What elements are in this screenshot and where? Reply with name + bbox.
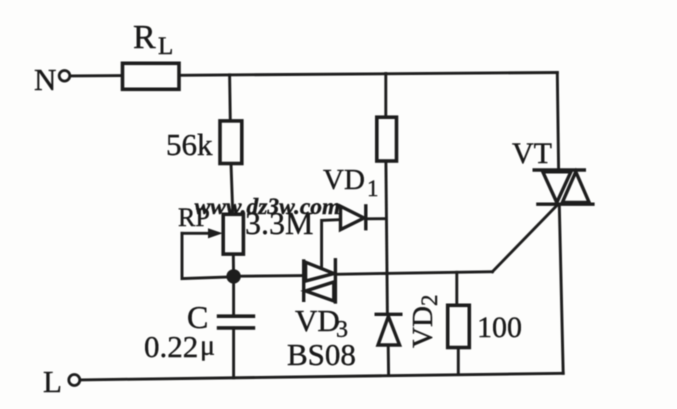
- node N label: [34, 62, 56, 97]
- label BS08: [287, 337, 356, 372]
- node L label: [43, 364, 62, 399]
- label VD1: [323, 164, 379, 201]
- wire 56k to RP: [231, 164, 233, 215]
- wire 100 resistor top: [455, 272, 458, 305]
- diode VD1: [341, 206, 366, 230]
- diac VD3: [304, 260, 336, 302]
- potentiometer wiper arrow: [182, 228, 223, 238]
- terminal L: [69, 375, 80, 386]
- label RL: [133, 19, 173, 60]
- svg-text:VD: VD: [295, 303, 340, 338]
- resistor 100: [448, 305, 470, 347]
- potentiometer RP body: [223, 214, 243, 254]
- wire wiper return left: [182, 233, 228, 278]
- wire gate diagonal to VT: [492, 205, 557, 272]
- wire vertical rail top: [384, 74, 387, 118]
- svg-text:VT: VT: [512, 137, 552, 170]
- label 3.3M: [245, 205, 313, 241]
- wire node A to diac VD3: [240, 274, 304, 278]
- label VD2: [407, 295, 442, 349]
- label 0.22u: [144, 329, 215, 364]
- svg-text:VD: VD: [323, 164, 365, 196]
- watermark www.dz3w.com: [195, 194, 341, 220]
- label VT: [512, 137, 552, 170]
- label VD3: [295, 303, 348, 343]
- capacitor C upper wire: [232, 282, 235, 316]
- wire diac VD3 to vertical rail: [335, 272, 386, 276]
- capacitor C lower wire: [232, 328, 235, 378]
- node A junction dot: [226, 269, 240, 283]
- label RP: [178, 203, 210, 232]
- resistor RL: [123, 63, 180, 89]
- svg-text:0.22: 0.22: [144, 329, 198, 364]
- svg-text:56k: 56k: [166, 127, 213, 162]
- svg-text:1: 1: [367, 176, 379, 201]
- wire VD1 anode riser: [322, 220, 341, 269]
- svg-text:VD: VD: [407, 306, 439, 348]
- svg-text:μ: μ: [200, 331, 215, 362]
- label 100: [477, 311, 522, 344]
- svg-text:L: L: [158, 33, 173, 60]
- svg-text:N: N: [34, 62, 56, 97]
- terminal N: [59, 71, 70, 82]
- wire N terminal to RL: [71, 74, 123, 77]
- wire 100 resistor bottom: [457, 348, 460, 375]
- wire right vertical top: [557, 73, 558, 170]
- wire VD2 to bottom rail: [387, 345, 390, 376]
- svg-text:R: R: [133, 19, 156, 56]
- capacitor C: [219, 316, 254, 328]
- diode VD2: [376, 314, 401, 345]
- wire top rail: [180, 73, 558, 76]
- wire RP to node A: [232, 254, 235, 270]
- triac VT: [534, 170, 593, 204]
- wire VD1 cathode to vertical rail: [366, 217, 386, 220]
- wire top rail to 56k: [228, 75, 232, 121]
- svg-text:L: L: [43, 364, 62, 399]
- wire bottom rail: [81, 373, 564, 380]
- label 56k: [166, 127, 213, 162]
- label C: [187, 299, 208, 335]
- wire vertical rail middle: [386, 161, 388, 314]
- wire main horizontal rail right: [386, 272, 492, 274]
- svg-text:2: 2: [417, 295, 442, 307]
- wire VT anode to bottom right corner: [559, 206, 563, 374]
- svg-text:BS08: BS08: [287, 337, 356, 372]
- resistor 56k: [220, 121, 242, 164]
- svg-text:100: 100: [477, 311, 522, 344]
- svg-text:www.dz3w.com: www.dz3w.com: [195, 194, 341, 220]
- resistor (unlabeled upper): [377, 117, 397, 161]
